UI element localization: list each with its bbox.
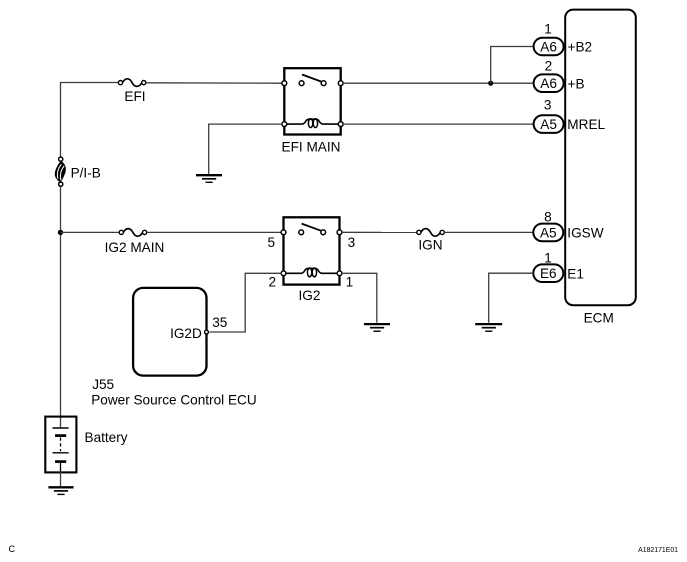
ground (EFI MAIN relay coil) [196, 175, 222, 182]
wire IG2 MAIN fuse to IG2 relay [147, 231, 282, 233]
node junction IG2 MAIN branch [58, 230, 63, 235]
wire EFI MAIN coil to MREL pin [343, 123, 534, 125]
svg-text:E6: E6 [540, 266, 557, 281]
svg-text:8: 8 [544, 210, 552, 225]
pin A5 IGSW (pin 8) [533, 210, 603, 242]
ground (battery) [48, 487, 73, 494]
svg-text:A6: A6 [540, 39, 557, 54]
svg-text:EFI: EFI [124, 89, 145, 104]
svg-text:IG2 MAIN: IG2 MAIN [105, 240, 165, 255]
svg-text:Power Source Control ECU: Power Source Control ECU [91, 393, 256, 408]
ground (IG2 relay coil) [364, 324, 390, 331]
svg-text:E1: E1 [567, 266, 584, 281]
wire IG2 pin1 to ground [342, 273, 377, 323]
wire battery negative to ground [60, 472, 62, 486]
fuse IGN [417, 229, 445, 253]
svg-text:+B2: +B2 [568, 40, 593, 55]
wire left rail P/I-B to junction to battery [60, 186, 62, 428]
fuse IG2 MAIN [105, 229, 165, 255]
relay IG2 [267, 217, 355, 303]
svg-text:3: 3 [348, 235, 356, 250]
ECM box U1 [565, 10, 636, 326]
svg-text:1: 1 [544, 250, 552, 265]
svg-text:A6: A6 [540, 76, 557, 91]
svg-text:IG2: IG2 [299, 288, 321, 303]
ECU J55 box (IG2D) [91, 288, 256, 408]
wire junction to IG2 MAIN fuse [61, 231, 120, 233]
wire battery to EFI fuse (top-left corner) [61, 83, 119, 158]
svg-text:MREL: MREL [567, 117, 605, 132]
wire EFI MAIN coil to ground [209, 124, 282, 174]
svg-text:2: 2 [545, 58, 553, 73]
battery BAT [45, 417, 127, 473]
pin A6 +B (pin 2) [534, 58, 585, 92]
svg-text:P/I-B: P/I-B [71, 166, 101, 181]
pin E6 E1 (pin 1) [533, 250, 584, 282]
wire IG2 pin3 to IGN fuse [342, 231, 417, 233]
svg-text:2: 2 [268, 275, 276, 290]
node junction +B2 branch [488, 81, 493, 86]
svg-text:IG2D: IG2D [170, 326, 202, 341]
drawing number A182171E01 [638, 547, 678, 554]
svg-text:5: 5 [267, 235, 275, 250]
svg-text:1: 1 [544, 21, 552, 36]
svg-text:A5: A5 [540, 117, 557, 132]
svg-text:ECM: ECM [584, 311, 614, 326]
wire IGN fuse to IGSW pin [444, 231, 533, 233]
ground (ECM E1) [475, 324, 502, 331]
svg-text:IGSW: IGSW [567, 226, 603, 241]
svg-text:3: 3 [544, 97, 552, 112]
pin A5 MREL (pin 3) [534, 97, 606, 133]
wire EFI MAIN relay to +B pin [343, 82, 534, 84]
pin A6 +B2 (pin 1) [534, 21, 592, 55]
fuse EFI [118, 79, 145, 104]
svg-text:A5: A5 [540, 225, 557, 240]
svg-text:Battery: Battery [85, 430, 128, 445]
connector P/I-B [55, 157, 101, 186]
wire IG2 pin2 to IG2D pin35 [209, 273, 281, 332]
wire E1 to ground [489, 273, 534, 323]
svg-text:J55: J55 [92, 377, 114, 392]
revision mark C [9, 544, 16, 554]
svg-text:C: C [9, 544, 16, 554]
svg-text:+B: +B [568, 76, 585, 91]
svg-text:A182171E01: A182171E01 [638, 547, 678, 554]
wire EFI fuse to EFI MAIN relay [146, 82, 282, 84]
svg-text:IGN: IGN [418, 238, 442, 253]
svg-text:35: 35 [212, 315, 227, 330]
relay EFI MAIN [282, 68, 344, 154]
svg-text:EFI MAIN: EFI MAIN [282, 140, 341, 155]
wire +B2 branch [491, 47, 534, 84]
svg-text:1: 1 [346, 275, 354, 290]
